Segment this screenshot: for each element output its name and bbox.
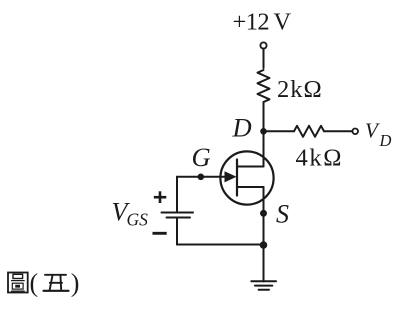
svg-text:2kΩ: 2kΩ <box>277 76 323 103</box>
svg-text:G: G <box>192 142 211 172</box>
svg-text:+12 V: +12 V <box>233 9 292 36</box>
svg-text:4kΩ: 4kΩ <box>296 145 344 172</box>
svg-text:GS: GS <box>127 210 149 230</box>
svg-text:): ) <box>71 269 80 298</box>
svg-text:V: V <box>365 118 380 142</box>
svg-text:D: D <box>379 131 392 150</box>
svg-text:S: S <box>276 200 289 229</box>
svg-text:D: D <box>232 113 252 143</box>
svg-text:(: ( <box>30 269 39 298</box>
